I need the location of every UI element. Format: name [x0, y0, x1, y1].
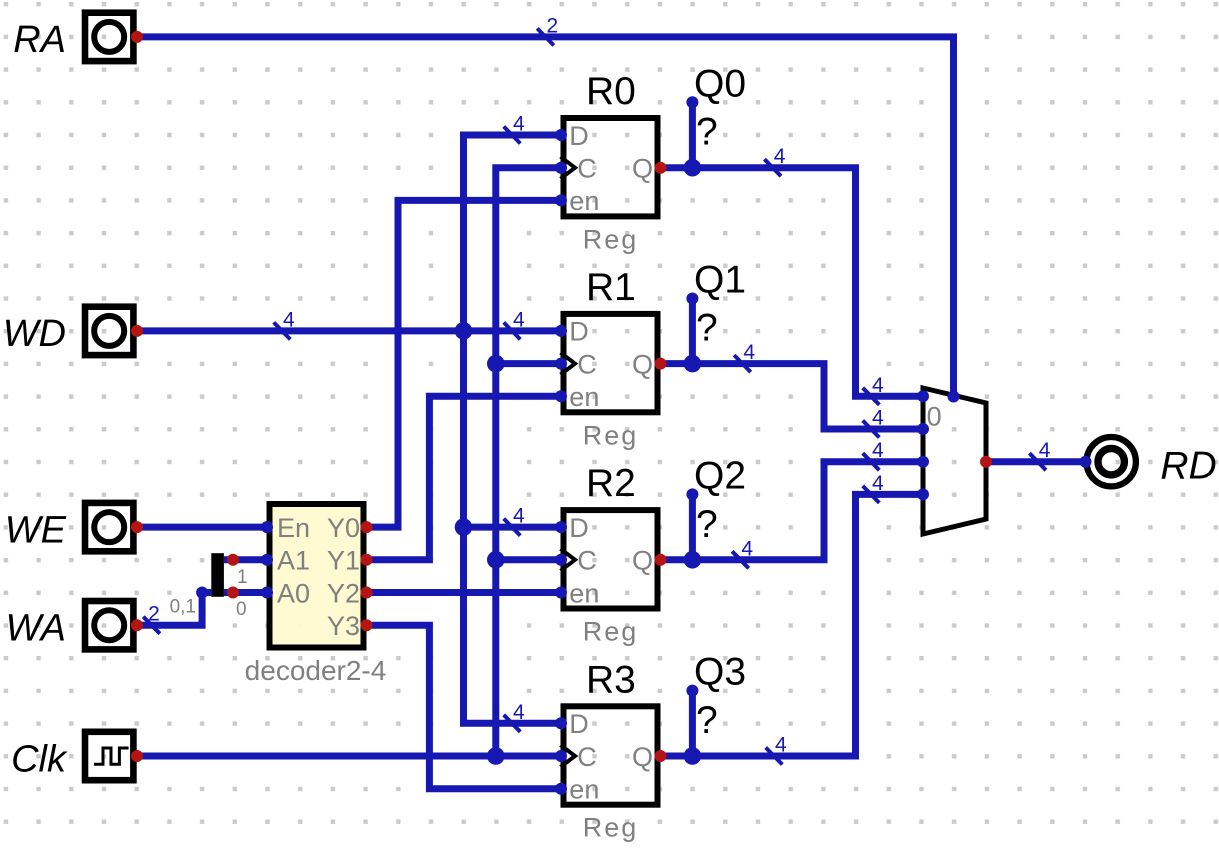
svg-text:en: en — [569, 186, 599, 216]
svg-text:4: 4 — [283, 308, 295, 331]
svg-text:En: En — [277, 513, 310, 543]
svg-text:4: 4 — [872, 439, 884, 462]
svg-text:0,1: 0,1 — [170, 597, 196, 618]
svg-text:4: 4 — [1039, 439, 1051, 462]
svg-text:Reg: Reg — [583, 224, 639, 254]
svg-text:R2: R2 — [586, 462, 636, 505]
svg-text:0: 0 — [927, 401, 942, 431]
svg-text:A0: A0 — [277, 578, 310, 608]
svg-text:WA: WA — [5, 608, 66, 650]
svg-text:4: 4 — [513, 113, 525, 136]
svg-text:4: 4 — [872, 407, 884, 430]
svg-text:C: C — [577, 546, 597, 576]
svg-text:?: ? — [696, 503, 718, 546]
svg-text:Y1: Y1 — [327, 546, 360, 576]
svg-text:4: 4 — [513, 505, 525, 528]
svg-text:Y2: Y2 — [327, 578, 360, 608]
svg-text:Clk: Clk — [11, 738, 68, 780]
svg-text:Q0: Q0 — [694, 62, 746, 105]
svg-text:Q: Q — [632, 546, 653, 576]
svg-text:D: D — [569, 513, 589, 543]
svg-text:Q3: Q3 — [694, 651, 746, 694]
svg-text:R0: R0 — [586, 70, 636, 113]
svg-text:4: 4 — [872, 374, 884, 397]
svg-text:decoder2-4: decoder2-4 — [245, 655, 387, 686]
svg-text:Reg: Reg — [583, 617, 639, 647]
svg-text:en: en — [569, 775, 599, 805]
svg-text:en: en — [569, 382, 599, 412]
svg-text:RA: RA — [13, 19, 66, 61]
svg-text:2: 2 — [148, 603, 160, 626]
svg-text:1: 1 — [237, 567, 248, 588]
svg-text:0: 0 — [236, 599, 247, 620]
svg-text:D: D — [569, 317, 589, 347]
svg-text:4: 4 — [774, 145, 786, 168]
svg-text:4: 4 — [513, 701, 525, 724]
svg-text:Reg: Reg — [583, 420, 639, 450]
svg-text:C: C — [577, 742, 597, 772]
svg-text:Y0: Y0 — [327, 513, 360, 543]
svg-text:R1: R1 — [586, 266, 636, 309]
svg-text:A1: A1 — [277, 546, 310, 576]
svg-text:Y3: Y3 — [327, 611, 360, 641]
svg-text:en: en — [569, 578, 599, 608]
svg-text:WD: WD — [3, 313, 66, 355]
svg-text:Reg: Reg — [583, 813, 639, 843]
svg-text:RD: RD — [1160, 444, 1216, 487]
svg-text:?: ? — [696, 699, 718, 742]
svg-text:Q1: Q1 — [694, 259, 746, 302]
svg-text:4: 4 — [775, 734, 787, 757]
svg-text:4: 4 — [872, 472, 884, 495]
svg-text:Q: Q — [632, 742, 653, 772]
svg-text:R3: R3 — [586, 658, 636, 701]
svg-text:D: D — [569, 121, 589, 151]
svg-text:4: 4 — [513, 308, 525, 331]
svg-text:4: 4 — [741, 537, 753, 560]
svg-text:C: C — [577, 349, 597, 379]
svg-text:Q2: Q2 — [694, 454, 746, 497]
svg-text:4: 4 — [743, 341, 755, 364]
svg-text:2: 2 — [547, 14, 559, 37]
svg-text:D: D — [569, 709, 589, 739]
svg-text:?: ? — [696, 111, 718, 154]
svg-text:Q: Q — [632, 349, 653, 379]
svg-text:C: C — [577, 154, 597, 184]
svg-text:WE: WE — [5, 509, 67, 551]
svg-text:?: ? — [696, 307, 718, 350]
svg-text:Q: Q — [632, 154, 653, 184]
